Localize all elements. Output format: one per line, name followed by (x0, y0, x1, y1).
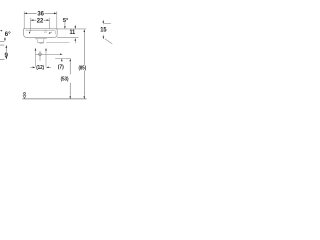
dim (12) right extension line with arrow (45, 48, 47, 67)
svg-text:22: 22 (37, 17, 44, 24)
svg-text:(7): (7) (58, 65, 64, 71)
dim 9 line (5, 48, 7, 58)
dimension 36 line (24, 12, 57, 14)
dim 15 bottom arrow (103, 36, 105, 39)
trap bottom dark edge (39, 42, 43, 44)
dim (12) left arrow and tail (30, 67, 35, 69)
shelf line for (7) and (53) (55, 57, 70, 59)
dim (53) vertical line (69, 61, 71, 95)
basin outline front view (24, 29, 58, 37)
extension line left of 36 (23, 11, 25, 28)
dimension 22 line (31, 19, 50, 21)
svg-text:(12): (12) (36, 65, 44, 71)
dim 9 top arrow (6, 45, 8, 48)
arrow 6 degrees (4, 38, 6, 41)
dim (85) bottom arrow (84, 96, 86, 99)
leader 6 degrees (4, 37, 6, 39)
level line c left (0, 59, 5, 61)
arrow 5 degrees (64, 26, 66, 29)
crosshair horizontal line / outlet direction (35, 53, 60, 55)
dimension 22 arrows (31, 19, 50, 21)
svg-text:5°: 5° (63, 18, 69, 24)
svg-text:(53): (53) (61, 77, 69, 83)
basin inner rim line (26, 31, 56, 34)
level line b left (0, 44, 4, 46)
drain position crosshair circle (39, 53, 42, 56)
dim (85) top arrow (84, 29, 86, 32)
inner bowl arrow left (29, 29, 31, 34)
basin bottom extension line (57, 36, 78, 38)
datum triangle (23, 96, 26, 99)
dim (85) vertical line (83, 32, 85, 95)
dim (12) left extension line with arrow (35, 48, 37, 67)
rim level extension line (57, 28, 86, 30)
dim (7) arrow (61, 59, 63, 62)
crosshair vertical line (39, 51, 41, 61)
floor line (22, 98, 86, 100)
svg-text:15: 15 (100, 26, 107, 33)
inner bowl arrow right (49, 32, 52, 34)
dim (53) arrow (69, 59, 71, 62)
dim 15 bottom tail diagonal (103, 35, 112, 44)
svg-text:11: 11 (70, 29, 76, 36)
left edge arrow mark (0, 30, 2, 32)
dim 11 top arrow (75, 25, 77, 29)
outlet direction arrow (60, 53, 63, 55)
dim (53) bottom arrow (69, 96, 71, 99)
svg-text:(85): (85) (79, 66, 87, 72)
drain shoulder line (35, 37, 47, 39)
extension line right of 22 (48, 18, 50, 29)
dim 15 top tail (103, 23, 111, 25)
extension line left of 22 (30, 18, 32, 29)
dim (12) right arrow and tail (46, 67, 51, 69)
svg-text:6°: 6° (5, 30, 11, 38)
level line a left (0, 40, 4, 42)
dim 9 bottom arrow (6, 57, 8, 60)
extension line right of 36 (56, 11, 58, 28)
lower level line C (46, 42, 69, 44)
dim 11 bottom arrow (75, 38, 77, 43)
trap cover trapezoid (37, 39, 44, 43)
tap hole dashed circle (44, 30, 46, 32)
dim 15 top arrow (103, 20, 105, 23)
leader 5 degrees (64, 22, 66, 26)
dimension 36 arrows (24, 13, 57, 15)
